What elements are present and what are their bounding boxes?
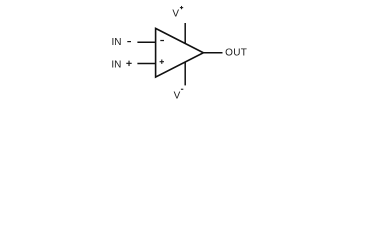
power net label V- [174,89,184,102]
op-amp plus marking (non-inverting input) [160,60,164,64]
wire V+ supply stub [184,23,186,44]
wire V- supply stub [184,62,186,86]
svg-text:V: V [174,90,181,101]
wire non-inverting input [137,62,155,64]
pin label IN + [111,59,131,70]
wire inverting input [137,41,155,43]
pin label IN - [112,37,132,48]
power net label V+ [172,6,183,20]
op-amp minus marking (inverting input) [160,40,164,41]
svg-text:IN: IN [111,59,121,70]
op-amp U1 triangle [156,28,204,77]
svg-text:V: V [172,9,179,20]
wire output [203,52,222,54]
svg-text:OUT: OUT [225,47,247,58]
svg-text:IN: IN [112,37,122,48]
